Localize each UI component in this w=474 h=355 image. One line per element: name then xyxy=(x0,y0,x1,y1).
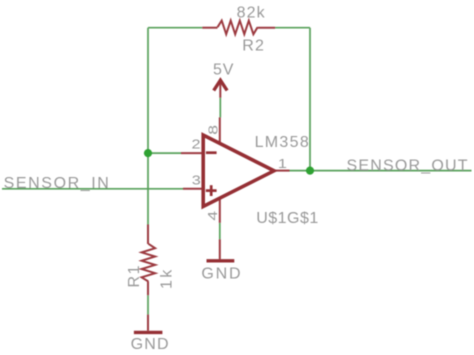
svg-text:1: 1 xyxy=(278,158,287,172)
svg-text:3: 3 xyxy=(192,174,201,188)
svg-text:R1: R1 xyxy=(126,264,143,288)
svg-text:2: 2 xyxy=(192,138,201,152)
svg-text:LM358: LM358 xyxy=(255,134,310,151)
svg-text:5V: 5V xyxy=(213,62,234,79)
svg-text:8: 8 xyxy=(207,125,221,135)
svg-text:GND: GND xyxy=(201,266,242,283)
svg-text:SENSOR_OUT: SENSOR_OUT xyxy=(347,158,469,175)
svg-text:SENSOR_IN: SENSOR_IN xyxy=(4,175,111,192)
svg-text:4: 4 xyxy=(206,211,220,221)
svg-text:U$1G$1: U$1G$1 xyxy=(256,210,319,227)
svg-text:R2: R2 xyxy=(242,38,265,55)
svg-text:82k: 82k xyxy=(237,5,266,22)
svg-text:1k: 1k xyxy=(159,267,176,289)
svg-text:GND: GND xyxy=(131,336,170,353)
